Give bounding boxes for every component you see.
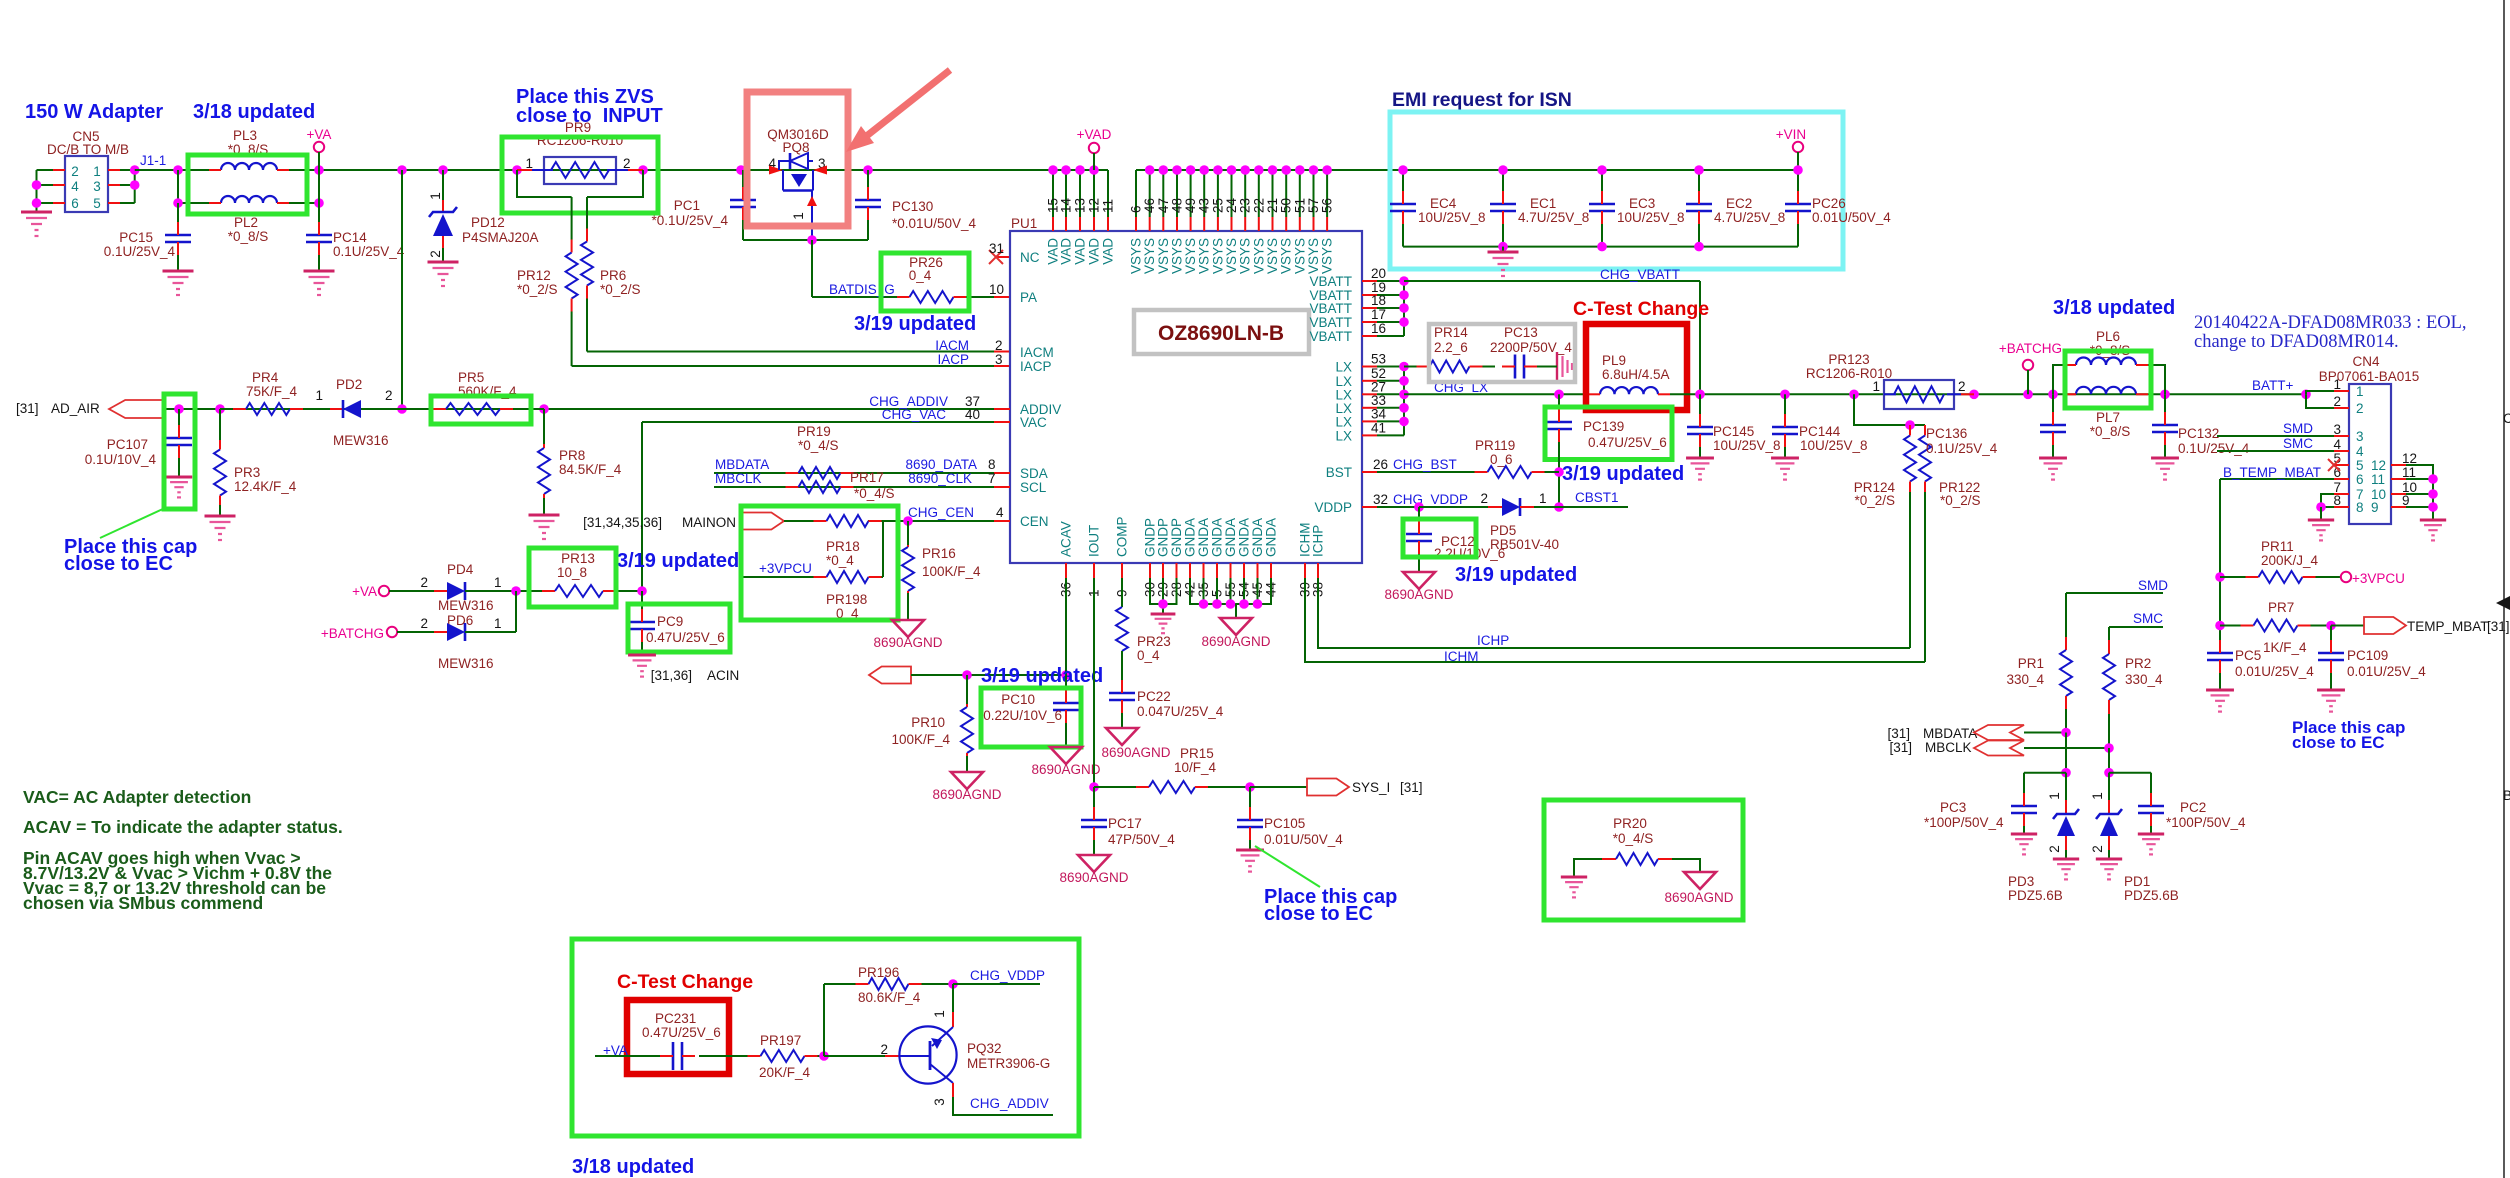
svg-text:20: 20	[1371, 266, 1386, 281]
svg-text:PR3: PR3	[234, 465, 260, 480]
wire PR18-PR198 tie	[882, 521, 884, 577]
red box PL9	[1586, 324, 1687, 410]
svg-text:MEW316: MEW316	[438, 598, 494, 613]
capacitor PC22	[1109, 693, 1135, 700]
ground CN4 left	[2308, 519, 2334, 522]
svg-text:13: 13	[1073, 198, 1088, 213]
wire SMC stub	[2109, 626, 2163, 628]
svg-text:0.1U/25V_4: 0.1U/25V_4	[104, 244, 176, 259]
ground PR8	[529, 514, 560, 517]
wire MBCLK row	[714, 486, 994, 488]
ground PC109	[2317, 689, 2345, 692]
wire CN5 left pins to ground	[37, 169, 54, 171]
ground PC9	[628, 654, 656, 657]
svg-text:CEN: CEN	[1020, 514, 1049, 529]
svg-text:0.1U/25V_4: 0.1U/25V_4	[2178, 441, 2250, 456]
svg-text:PD5: PD5	[1490, 523, 1516, 538]
svg-text:BST: BST	[1326, 465, 1352, 480]
ground PC17 8690AGND	[1078, 855, 1110, 872]
green box PR26	[881, 253, 969, 311]
svg-text:*0_2/S: *0_2/S	[1940, 493, 1981, 508]
svg-text:OZ8690LN-B: OZ8690LN-B	[1158, 322, 1284, 345]
svg-text:0.01U/25V_4: 0.01U/25V_4	[2235, 664, 2314, 679]
svg-text:0.047U/25V_4: 0.047U/25V_4	[1137, 704, 1224, 719]
wire PL2 branch row	[177, 170, 179, 203]
svg-text:2: 2	[2090, 845, 2105, 853]
svg-text:P4SMAJ20A: P4SMAJ20A	[462, 230, 539, 245]
wire PQ32 collector pin1	[952, 984, 954, 1012]
svg-text:ICHP: ICHP	[1477, 633, 1509, 648]
ground PD3	[2053, 858, 2079, 861]
transistor PQ32 (METR3906-G)	[899, 1026, 956, 1083]
svg-text:+VAD: +VAD	[1077, 127, 1112, 142]
svg-text:CHG_VBATT: CHG_VBATT	[1600, 267, 1680, 282]
svg-text:1K/F_4: 1K/F_4	[2263, 640, 2307, 655]
capacitor PC139 (boxed)	[1558, 394, 1560, 409]
svg-text:PR5: PR5	[458, 370, 484, 385]
svg-text:2200P/50V_4: 2200P/50V_4	[1490, 340, 1572, 355]
svg-text:2: 2	[2356, 401, 2364, 416]
CN4 left pin stubs	[2334, 390, 2349, 392]
svg-text:53: 53	[1371, 352, 1386, 367]
svg-text:11: 11	[1101, 199, 1116, 213]
svg-text:*100P/50V_4: *100P/50V_4	[2166, 815, 2246, 830]
svg-text:VBATT: VBATT	[1309, 315, 1352, 330]
svg-text:SYS_I: SYS_I	[1352, 780, 1390, 795]
svg-text:10U/25V_8: 10U/25V_8	[1418, 210, 1486, 225]
wire PQ8 gate pin1	[811, 191, 813, 241]
svg-text:MEW316: MEW316	[333, 433, 389, 448]
green leader line PC107	[100, 508, 165, 538]
svg-text:1: 1	[2090, 792, 2105, 800]
svg-text:0.01U/50V_4: 0.01U/50V_4	[1264, 832, 1343, 847]
wire CHG_VDDP row	[1362, 506, 1377, 508]
svg-text:150 W Adapter: 150 W Adapter	[25, 101, 163, 123]
svg-text:2: 2	[623, 156, 631, 171]
ground PR20 left	[1561, 876, 1587, 879]
ground PC15	[163, 270, 194, 273]
svg-text:MBDATA: MBDATA	[715, 457, 769, 472]
wire CN4 pins 12/11/10/9 ground	[2406, 465, 2433, 520]
wire ACAV pin riser	[1065, 578, 1067, 675]
svg-text:PR19: PR19	[797, 424, 831, 439]
svg-text:12.4K/F_4: 12.4K/F_4	[234, 479, 297, 494]
svg-text:8690AGND: 8690AGND	[1059, 870, 1128, 885]
svg-text:close to EC: close to EC	[1264, 903, 1373, 925]
svg-text:IOUT: IOUT	[1087, 525, 1102, 557]
svg-text:11: 11	[2371, 472, 2385, 487]
svg-text:4: 4	[71, 179, 79, 194]
ground PC2	[2138, 833, 2164, 836]
ground PC14	[304, 270, 335, 273]
svg-text:17: 17	[1371, 307, 1386, 322]
svg-text:PQ32: PQ32	[967, 1041, 1002, 1056]
wire after PL9 (battery rail)	[1670, 393, 2306, 395]
wire PC139 to BST/CBST1	[1558, 442, 1560, 507]
svg-text:[31]: [31]	[16, 401, 39, 416]
svg-text:5: 5	[2356, 458, 2364, 473]
svg-text:4: 4	[996, 505, 1004, 520]
capacitor PC145	[1699, 394, 1701, 414]
svg-text:CN4: CN4	[2352, 354, 2379, 369]
svg-text:47P/50V_4: 47P/50V_4	[1108, 832, 1175, 847]
svg-text:PR196: PR196	[858, 965, 899, 980]
svg-text:*0_8/S: *0_8/S	[2090, 424, 2131, 439]
ground PR3	[205, 515, 236, 518]
svg-text:[31]: [31]	[1887, 726, 1910, 741]
wire SMD stub	[2066, 592, 2163, 594]
svg-text:VAD: VAD	[1059, 238, 1074, 265]
wire MBDATA row	[714, 472, 994, 474]
wire CHG_LX main row	[1404, 393, 1588, 395]
diode PD4	[389, 590, 447, 592]
svg-text:PC9: PC9	[657, 614, 683, 629]
svg-text:*0.1U/25V_4: *0.1U/25V_4	[651, 213, 728, 228]
svg-text:8690AGND: 8690AGND	[1201, 634, 1270, 649]
svg-text:2: 2	[420, 575, 428, 590]
svg-text:1: 1	[2333, 377, 2341, 392]
svg-text:1: 1	[1539, 491, 1547, 506]
svg-text:VAD: VAD	[1101, 238, 1116, 265]
svg-text:PR14: PR14	[1434, 325, 1468, 340]
svg-text:8690AGND: 8690AGND	[1664, 890, 1733, 905]
diode PD1 (zener)	[2108, 773, 2110, 800]
svg-text:0.01U/50V_4: 0.01U/50V_4	[1812, 210, 1891, 225]
wire CHG_BST row	[1362, 471, 1377, 473]
svg-text:B: B	[2503, 788, 2510, 803]
svg-text:6.8uH/4.5A: 6.8uH/4.5A	[1602, 367, 1670, 382]
svg-text:3/18 updated: 3/18 updated	[193, 101, 315, 123]
wire SMC to CN4 pin4	[2217, 450, 2334, 452]
svg-text:PR7: PR7	[2268, 600, 2294, 615]
resistor PR23	[1121, 606, 1123, 608]
capacitor PC26	[1797, 170, 1799, 191]
svg-text:PC130: PC130	[892, 199, 933, 214]
svg-text:1: 1	[1872, 379, 1880, 394]
svg-text:0.01U/25V_4: 0.01U/25V_4	[2347, 664, 2426, 679]
svg-text:PC5: PC5	[2235, 648, 2261, 663]
svg-text:20K/F_4: 20K/F_4	[759, 1065, 811, 1080]
svg-text:12: 12	[2402, 451, 2417, 466]
wire EMI bottom rail	[1403, 246, 1798, 248]
svg-text:8: 8	[988, 457, 996, 472]
svg-text:PR17: PR17	[850, 470, 884, 485]
svg-text:12: 12	[1087, 198, 1102, 213]
svg-text:PR13: PR13	[561, 551, 595, 566]
wire PD6 to PD4 junction	[515, 591, 517, 632]
svg-text:0.1U/25V_4: 0.1U/25V_4	[333, 244, 405, 259]
ground EMI (EC1)	[1502, 247, 1504, 252]
svg-text:VAD: VAD	[1087, 238, 1102, 265]
svg-text:METR3906-G: METR3906-G	[967, 1056, 1050, 1071]
svg-text:3/19 updated: 3/19 updated	[1562, 463, 1684, 485]
svg-text:ICHM: ICHM	[1444, 649, 1479, 664]
svg-text:ACIN: ACIN	[707, 668, 739, 683]
svg-text:NC: NC	[1020, 250, 1040, 265]
svg-text:PR6: PR6	[600, 268, 626, 283]
svg-text:3/19 updated: 3/19 updated	[617, 550, 739, 572]
svg-text:VBATT: VBATT	[1309, 301, 1352, 316]
inductor PL2	[221, 196, 277, 203]
svg-text:LX: LX	[1335, 414, 1352, 429]
wire B_TEMP_MBAT riser	[2219, 479, 2221, 649]
svg-text:PQ8: PQ8	[782, 140, 809, 155]
svg-text:EC4: EC4	[1430, 196, 1457, 211]
wire CEN row	[784, 520, 826, 522]
svg-text:PL2: PL2	[234, 215, 258, 230]
svg-text:*100P/50V_4: *100P/50V_4	[1924, 815, 2004, 830]
wire MBCLK	[2024, 747, 2109, 749]
wire PQ8 bottom rail	[743, 239, 868, 241]
inductor PL3	[221, 163, 277, 170]
svg-text:32: 32	[1373, 492, 1388, 507]
svg-text:3/19 updated: 3/19 updated	[854, 313, 976, 335]
ground PC144	[1771, 457, 1799, 460]
svg-text:*0_2/S: *0_2/S	[517, 282, 558, 297]
wire BATDIS_G	[811, 240, 813, 297]
wire +VA bus top (VAD net)	[135, 169, 221, 171]
capacitor PC144	[1784, 394, 1786, 414]
svg-text:100K/F_4: 100K/F_4	[891, 732, 950, 747]
svg-text:MEW316: MEW316	[438, 656, 494, 671]
ground PC107	[166, 476, 192, 479]
svg-text:10/F_4: 10/F_4	[1174, 760, 1217, 775]
ground GNDA 8690AGND	[1220, 618, 1252, 635]
svg-text:MAINON: MAINON	[682, 515, 736, 530]
pin NC no-connect	[996, 256, 1010, 258]
ground GNDP	[1151, 613, 1176, 616]
svg-text:SMC: SMC	[2283, 436, 2313, 451]
svg-text:2: 2	[1958, 379, 1966, 394]
ground CN4 right	[2420, 519, 2446, 522]
svg-text:PR2: PR2	[2125, 656, 2151, 671]
green leader PC105	[1255, 846, 1320, 887]
svg-text:GNDA: GNDA	[1264, 518, 1279, 557]
svg-text:*0_4: *0_4	[826, 553, 854, 568]
capacitor PC10 (boxed)	[1065, 675, 1067, 690]
ground PR10 8690AGND	[951, 772, 983, 789]
wire CHG_VBATT	[1404, 280, 1700, 282]
svg-text:VAD: VAD	[1073, 238, 1088, 265]
ground PC132	[2151, 457, 2179, 460]
capacitor EC4	[1402, 170, 1404, 191]
svg-text:2: 2	[880, 1042, 888, 1057]
svg-text:SMD: SMD	[2283, 421, 2313, 436]
capacitor PC9 (boxed)	[641, 591, 643, 610]
svg-text:3: 3	[2333, 422, 2341, 437]
svg-text:1: 1	[525, 156, 533, 171]
svg-text:CBST1: CBST1	[1575, 490, 1619, 505]
ground PC3	[2011, 833, 2037, 836]
svg-text:LX: LX	[1335, 360, 1352, 375]
svg-text:0.22U/10V_6: 0.22U/10V_6	[983, 708, 1062, 723]
wire AD_AIR sense riser	[401, 170, 403, 409]
svg-text:PC107: PC107	[107, 437, 148, 452]
svg-text:3: 3	[932, 1098, 947, 1106]
svg-text:VDDP: VDDP	[1314, 500, 1352, 515]
wire +3VPCU stub	[742, 576, 812, 578]
cyan box EMI	[1390, 112, 1843, 269]
svg-text:VAC: VAC	[1020, 415, 1047, 430]
svg-text:+BATCHG: +BATCHG	[1999, 341, 2062, 356]
svg-text:*0_2/S: *0_2/S	[600, 282, 641, 297]
orange arrow annotation	[864, 70, 950, 138]
wire ACIN row	[911, 674, 1066, 676]
svg-text:*0.01U/50V_4: *0.01U/50V_4	[892, 216, 977, 231]
port TEMP_MBAT	[2331, 625, 2364, 627]
svg-text:*0_4/S: *0_4/S	[854, 486, 895, 501]
wire PQ32 emitter pin3 CHG_ADDIV	[952, 1083, 954, 1097]
svg-text:PC231: PC231	[655, 1011, 696, 1026]
wire CHG_VAC riser	[641, 422, 643, 591]
svg-text:PR23: PR23	[1137, 634, 1171, 649]
svg-text:8690AGND: 8690AGND	[1031, 762, 1100, 777]
svg-text:MBCLK: MBCLK	[715, 471, 762, 486]
svg-text:10: 10	[989, 282, 1004, 297]
svg-text:9: 9	[2402, 493, 2410, 508]
svg-text:+VA: +VA	[352, 584, 377, 599]
svg-text:[31,34,35,36]: [31,34,35,36]	[583, 515, 662, 530]
wire clamp node right	[2108, 748, 2110, 773]
wire CHG_VDDP (bottom)	[953, 983, 1040, 985]
svg-text:PL3: PL3	[233, 128, 257, 143]
svg-text:EC3: EC3	[1629, 196, 1655, 211]
svg-text:PD1: PD1	[2124, 874, 2150, 889]
svg-text:PU1: PU1	[1011, 216, 1037, 231]
ground PC145	[1686, 457, 1714, 460]
svg-text:close to INPUT: close to INPUT	[516, 105, 663, 127]
gray box PR14/PC13	[1429, 324, 1575, 382]
svg-text:2: 2	[385, 388, 393, 403]
wire SMD to CN4 pin3	[2217, 435, 2334, 437]
wire GNDP group	[1150, 578, 1177, 604]
ground PD1	[2096, 858, 2122, 861]
wire ICHP	[1318, 578, 1910, 648]
wire PR196 tie	[823, 984, 825, 1056]
salmon box PQ8	[747, 92, 848, 226]
svg-text:SMC: SMC	[2133, 611, 2163, 626]
svg-text:[31]: [31]	[1889, 740, 1912, 755]
svg-text:40: 40	[965, 407, 980, 422]
wire B_TEMP_MBAT to CN4 pin6	[2220, 478, 2334, 480]
capacitor PC130	[867, 170, 869, 188]
svg-text:1: 1	[791, 212, 806, 220]
capacitor PC105	[1249, 787, 1251, 807]
wire VAD pin stubs	[1052, 170, 1054, 217]
svg-text:PC10: PC10	[1001, 692, 1035, 707]
svg-text:PL6: PL6	[2096, 329, 2120, 344]
svg-text:PDZ5.6B: PDZ5.6B	[2124, 888, 2179, 903]
svg-text:PR119: PR119	[1475, 438, 1515, 453]
svg-text:4: 4	[2333, 437, 2341, 452]
svg-text:8690AGND: 8690AGND	[1101, 745, 1170, 760]
wire CN5 right pins J1-1 node	[108, 169, 120, 171]
ground CN5	[21, 211, 52, 214]
wire VBATT pins	[1362, 280, 1377, 282]
svg-text:COMP: COMP	[1115, 517, 1130, 558]
svg-text:CHG_BST: CHG_BST	[1393, 457, 1457, 472]
svg-text:*0_8/S: *0_8/S	[228, 229, 269, 244]
power port +3VPCU	[2341, 572, 2351, 582]
svg-text:5: 5	[93, 196, 101, 211]
svg-text:IACM: IACM	[1020, 345, 1054, 360]
svg-text:PC144: PC144	[1799, 424, 1841, 439]
capacitor PC17	[1093, 787, 1095, 807]
svg-text:EMI request for ISN: EMI request for ISN	[1392, 89, 1572, 111]
svg-text:ACAV: ACAV	[1059, 521, 1074, 557]
capacitor PC109	[2330, 626, 2332, 641]
capacitor EC1	[1502, 170, 1504, 191]
green box PR20	[1544, 800, 1743, 920]
svg-text:PR18: PR18	[826, 539, 860, 554]
svg-text:16: 16	[1371, 321, 1386, 336]
inductor PL7	[2076, 387, 2136, 395]
svg-text:ACAV = To indicate the adapter: ACAV = To indicate the adapter status.	[23, 817, 343, 837]
IC U1 OZ8690LN-B body	[1010, 231, 1362, 563]
svg-text:8690AGND: 8690AGND	[932, 787, 1001, 802]
svg-text:8690_CLK: 8690_CLK	[908, 471, 972, 486]
svg-text:PR20: PR20	[1613, 816, 1647, 831]
wire clamp node left	[2065, 733, 2067, 773]
svg-text:PA: PA	[1020, 290, 1037, 305]
svg-text:4.7U/25V_8: 4.7U/25V_8	[1714, 210, 1785, 225]
ground PR20 right 8690AGND	[1684, 872, 1716, 889]
ground PC5	[2206, 689, 2234, 692]
svg-text:[31,36]: [31,36]	[651, 668, 692, 683]
svg-text:0.1U/25V_4: 0.1U/25V_4	[1926, 441, 1998, 456]
svg-text:PC2: PC2	[2180, 800, 2206, 815]
svg-text:PC105: PC105	[1264, 816, 1305, 831]
wire IACM to IC	[587, 351, 994, 353]
svg-text:1: 1	[494, 575, 502, 590]
capacitor PC15	[177, 203, 179, 222]
capacitor PC14	[318, 170, 320, 203]
svg-text:8: 8	[2333, 493, 2341, 508]
svg-text:0_6: 0_6	[1490, 452, 1513, 467]
wire AD_AIR row	[163, 408, 544, 410]
svg-text:10_8: 10_8	[557, 565, 587, 580]
svg-text:3: 3	[995, 352, 1003, 367]
svg-text:+3VPCU: +3VPCU	[2352, 571, 2405, 586]
svg-text:IACP: IACP	[1020, 359, 1052, 374]
svg-text:2: 2	[2333, 394, 2341, 409]
svg-text:BATT+: BATT+	[2252, 378, 2293, 393]
svg-text:1: 1	[93, 164, 101, 179]
svg-text:CHG_VDDP: CHG_VDDP	[970, 968, 1045, 983]
capacitor PC2	[2150, 773, 2152, 793]
IC bottom pin stubs	[1065, 563, 1067, 578]
green box PR9 (Place this ZVS)	[502, 137, 658, 213]
svg-text:PC13: PC13	[1504, 325, 1538, 340]
svg-text:IACP: IACP	[937, 352, 969, 367]
svg-text:8690_DATA: 8690_DATA	[905, 457, 977, 472]
svg-text:8690AGND: 8690AGND	[873, 635, 942, 650]
svg-text:DC/B TO M/B: DC/B TO M/B	[47, 142, 129, 157]
resistor PR10	[966, 675, 968, 704]
svg-text:2: 2	[428, 250, 443, 258]
capacitor PC12 (boxed)	[1418, 507, 1420, 521]
svg-text:PC22: PC22	[1137, 689, 1171, 704]
svg-text:PR198: PR198	[826, 592, 867, 607]
resistor PR17	[784, 486, 786, 488]
svg-text:3/18 updated: 3/18 updated	[572, 1156, 694, 1178]
resistor PR16	[903, 516, 913, 526]
svg-text:0.47U/25V_6: 0.47U/25V_6	[646, 630, 725, 645]
svg-text:EC2: EC2	[1726, 196, 1752, 211]
svg-text:0_4: 0_4	[909, 268, 932, 283]
svg-text:2: 2	[2047, 845, 2062, 853]
svg-text:ICHP: ICHP	[1311, 525, 1326, 557]
